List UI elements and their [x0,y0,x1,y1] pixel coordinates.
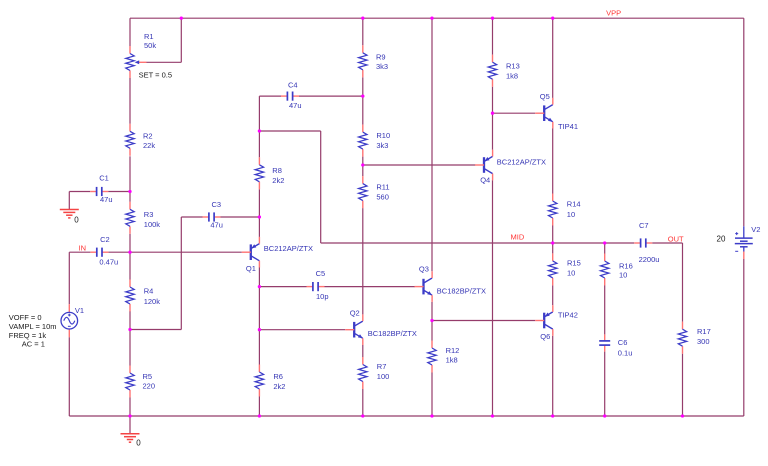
svg-text:Q1: Q1 [246,264,256,273]
svg-text:R13: R13 [506,62,520,71]
svg-text:C4: C4 [288,81,298,90]
svg-text:Q6: Q6 [540,332,550,341]
svg-text:R15: R15 [567,258,581,267]
svg-text:0: 0 [136,439,141,448]
svg-text:AC = 1: AC = 1 [22,339,45,348]
svg-text:VAMPL = 10m: VAMPL = 10m [9,322,57,331]
svg-text:R3: R3 [144,210,154,219]
svg-text:R4: R4 [144,287,154,296]
svg-text:47u: 47u [210,220,223,229]
svg-text:C1: C1 [99,174,109,183]
svg-text:10: 10 [619,271,627,280]
svg-text:100: 100 [377,372,390,381]
svg-text:R12: R12 [446,346,460,355]
svg-text:R14: R14 [567,200,581,209]
svg-text:220: 220 [143,381,156,390]
svg-text:TIP42: TIP42 [558,311,578,320]
svg-text:IN: IN [79,244,87,253]
svg-text:10: 10 [567,268,575,277]
svg-text:VPP: VPP [606,9,621,18]
svg-text:BC182BP/ZTX: BC182BP/ZTX [437,286,486,295]
svg-text:100k: 100k [144,220,161,229]
svg-text:1k8: 1k8 [506,72,518,81]
svg-text:2200u: 2200u [639,255,660,264]
svg-text:0.47u: 0.47u [99,258,118,267]
svg-text:V1: V1 [75,306,84,315]
svg-text:BC212AP/ZTX: BC212AP/ZTX [497,157,546,166]
svg-text:10: 10 [567,210,575,219]
svg-text:1k8: 1k8 [446,356,458,365]
svg-text:R5: R5 [143,372,153,381]
svg-text:VOFF = 0: VOFF = 0 [9,313,42,322]
svg-text:10p: 10p [316,292,329,301]
svg-text:47u: 47u [289,101,302,110]
svg-text:R17: R17 [697,327,711,336]
svg-text:2k2: 2k2 [273,382,285,391]
svg-text:Q2: Q2 [350,309,360,318]
svg-text:120k: 120k [144,297,161,306]
svg-text:R9: R9 [376,53,386,62]
svg-text:R10: R10 [376,131,390,140]
svg-text:0: 0 [74,216,79,225]
svg-text:C6: C6 [618,338,628,347]
svg-text:R11: R11 [376,182,389,191]
svg-text:Q5: Q5 [540,92,550,101]
svg-text:300: 300 [697,337,710,346]
svg-text:0.1u: 0.1u [618,348,633,357]
svg-text:Q4: Q4 [480,176,490,185]
svg-text:SET = 0.5: SET = 0.5 [139,70,172,79]
svg-text:560: 560 [376,192,389,201]
svg-text:2k2: 2k2 [272,176,284,185]
svg-text:Q3: Q3 [419,265,429,274]
svg-text:R7: R7 [377,362,387,371]
svg-text:R8: R8 [272,166,282,175]
svg-text:C5: C5 [316,269,326,278]
svg-text:C2: C2 [100,235,110,244]
svg-text:MID: MID [511,232,525,241]
svg-text:C7: C7 [639,221,649,230]
svg-text:50k: 50k [144,41,156,50]
svg-text:R1: R1 [144,32,154,41]
svg-text:R2: R2 [143,131,153,140]
svg-text:3k3: 3k3 [376,141,388,150]
svg-text:BC182BP/ZTX: BC182BP/ZTX [368,329,417,338]
svg-text:OUT: OUT [668,234,684,243]
svg-text:C3: C3 [212,200,222,209]
svg-text:R16: R16 [619,261,633,270]
svg-text:TIP41: TIP41 [558,122,578,131]
svg-text:BC212AP/ZTX: BC212AP/ZTX [264,244,313,253]
svg-text:3k3: 3k3 [376,62,388,71]
svg-text:47u: 47u [100,195,113,204]
svg-text:20: 20 [717,234,726,243]
svg-text:R6: R6 [273,372,283,381]
svg-text:22k: 22k [143,141,155,150]
svg-text:V2: V2 [751,225,760,234]
